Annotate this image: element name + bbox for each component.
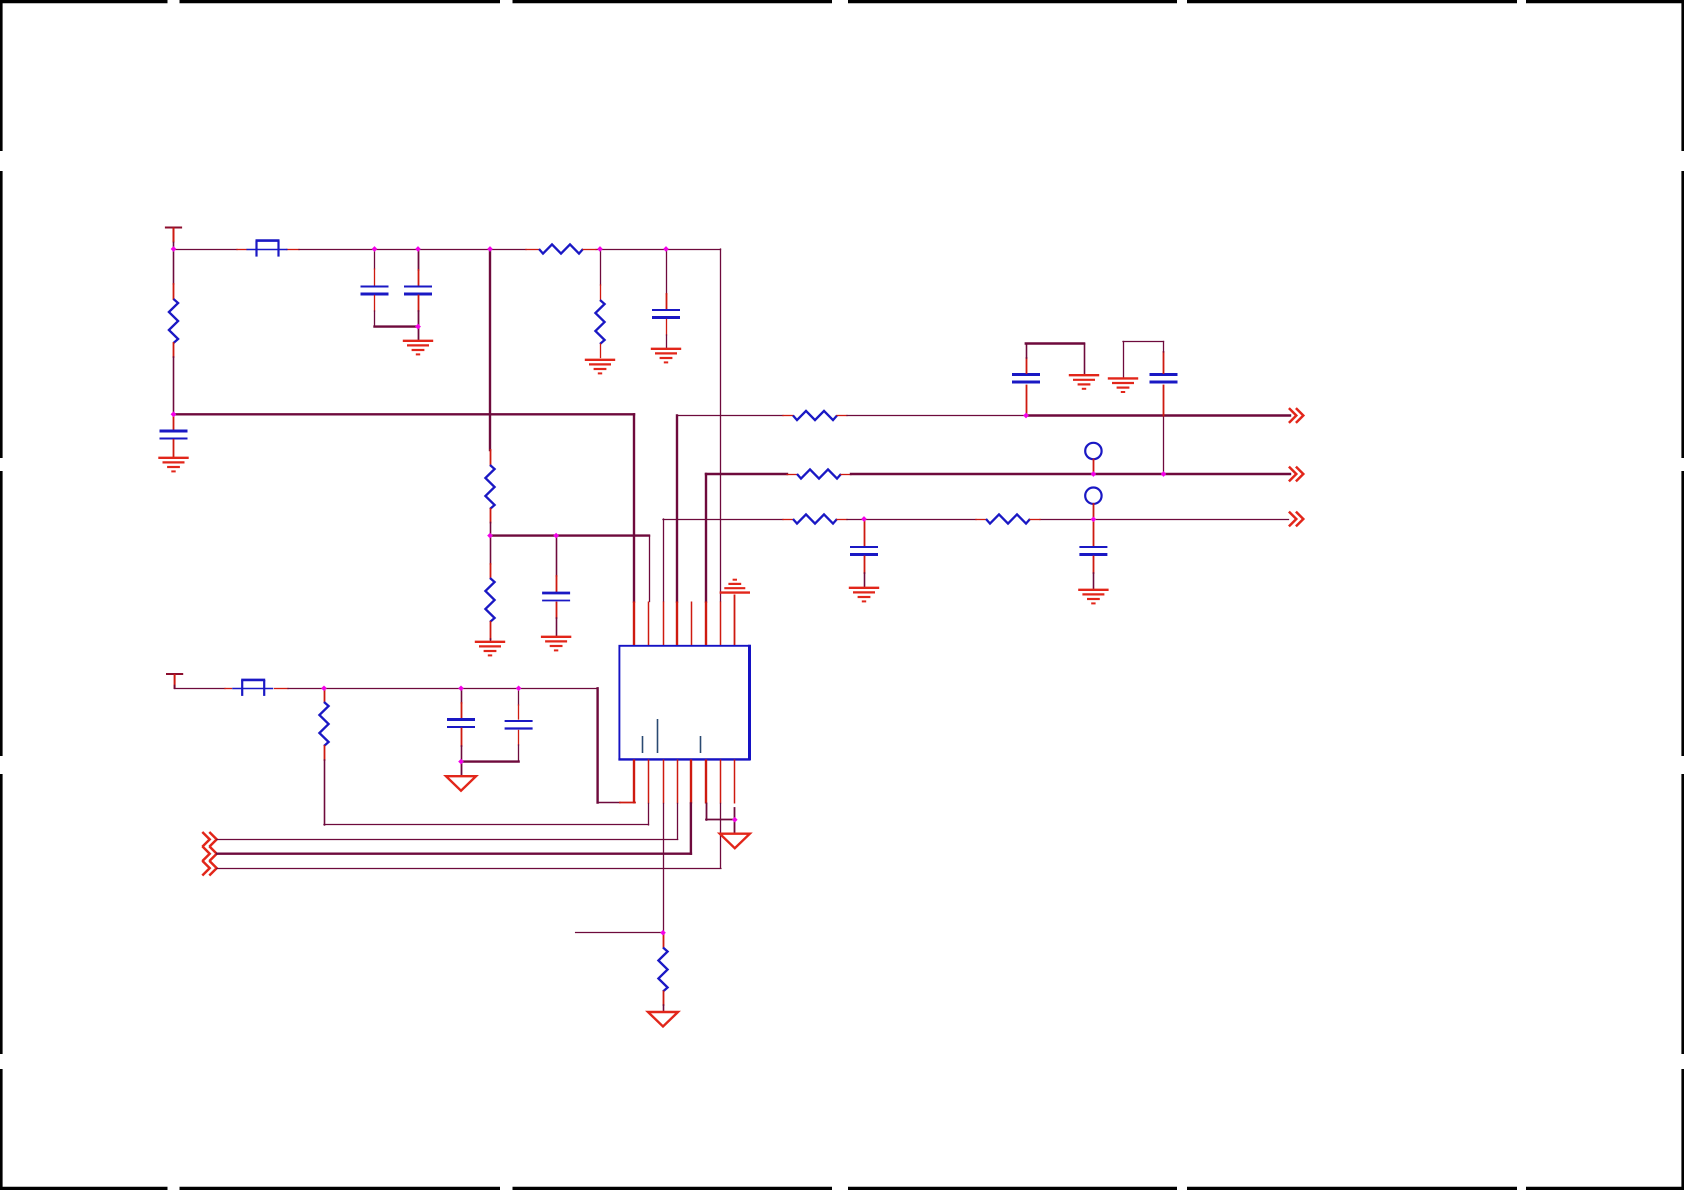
wire U1 pin8 to triangle ground: [734, 808, 736, 833]
ground G9: [1069, 375, 1099, 389]
wire vertical x=706 down to U1 pin5: [705, 474, 707, 602]
capacitor C4 at (666,310): [666, 249, 668, 294]
capacitor C5 at (556,593): [556, 536, 558, 576]
wire net A y=414 (173 to 634): [174, 413, 635, 415]
off-page connector net C: [1289, 512, 1303, 527]
resistor R8 on net E: [797, 469, 841, 478]
triangle ground T1: [446, 776, 476, 791]
ground G10: [1108, 378, 1138, 392]
U1 pin8 stub to flipped ground: [734, 595, 736, 646]
capacitor C11 at (518,721): [518, 688, 520, 705]
ground G7: [849, 588, 879, 602]
resistor R7 on net D: [793, 411, 837, 420]
wire VCC1 rail y=249: [174, 249, 238, 251]
off-page connector net D: [1289, 408, 1303, 423]
resistor R6 on net C: [976, 519, 986, 521]
resistor R9 at (324,704): [324, 688, 326, 690]
wire y=802.6 to U1 pin1 bottom: [598, 802, 620, 804]
triangle ground T3: [648, 1012, 678, 1027]
ground G8: [1078, 590, 1108, 604]
node junction (173,414): [171, 411, 177, 417]
wire C2-C3 bottom join y=326.6: [375, 325, 419, 327]
U1 inner pin-name marks: [643, 719, 701, 753]
resistor R3 at (600,300) to ground: [600, 249, 602, 285]
U1 top pin stubs: [633, 602, 635, 646]
capacitor C2 at (374,286): [374, 249, 376, 269]
wire stub y=932.7: [576, 932, 663, 934]
junction dots: [171, 246, 177, 252]
capacitor C3 at (418,286): [418, 249, 420, 270]
capacitor C6 at (864,547): [864, 519, 866, 546]
wire net C (output 3) y=519: [663, 519, 783, 521]
test point circle TP1: [1085, 443, 1101, 459]
flipped ground G11 above U1 pin8: [720, 580, 750, 593]
sheet border bottom: [0, 1187, 1684, 1190]
wire net E (output 2) y=474: [706, 473, 787, 475]
resistor R2 at (490,465): [490, 450, 492, 465]
ground G6: [541, 637, 571, 651]
node junction (418,326.6): [415, 324, 421, 330]
fuse F1: [247, 241, 288, 257]
resistor R10 at (663,947): [663, 933, 665, 934]
sheet border left: [0, 0, 3, 1190]
wire U1 pin3 long vertical to x=663,933: [663, 804, 665, 933]
off-page connector bus wire 2 y=853.7: [202, 846, 216, 861]
wire vertical x=720.5 from rail to U1 pin6: [720, 249, 722, 602]
wire U1 pin6 to ground net: [706, 804, 708, 820]
IC U1 body: [619, 646, 749, 760]
wire C10-C11 join y=761.6: [461, 760, 519, 762]
ground G4: [651, 349, 681, 363]
power flag VCC2: [166, 673, 183, 675]
resistor R1 vertical at x=173: [173, 249, 175, 284]
resistor R4 at (490,578) to ground: [490, 536, 492, 564]
wire y=824.9 to U1 pin2 bottom: [324, 824, 649, 826]
wire vertical x=634 down to U1 pin1: [633, 414, 635, 601]
resistor R11 on VCC1 rail: [526, 249, 539, 251]
wire net B y=535.6: [490, 534, 649, 536]
wire vertical x=663 down to U1 pin3: [663, 519, 665, 602]
off-page connector net E: [1289, 467, 1303, 482]
wire net D (output 1) y=415.5: [677, 415, 783, 417]
capacitor C10 at (461,719): [461, 688, 463, 703]
off-page connector bus wire 3 y=868.1: [202, 861, 216, 876]
test point circle TP2: [1085, 488, 1101, 504]
capacitor C8 at (1026,374) with ground loop: [1026, 386, 1028, 416]
ground G5: [475, 642, 505, 656]
ground G3: [585, 360, 615, 374]
fuse F2: [232, 680, 273, 696]
triangle ground T2: [720, 834, 750, 849]
power flag VCC1: [165, 227, 182, 229]
ground G1: [158, 458, 188, 472]
wire vertical x=490 (249 to 535): [489, 249, 491, 450]
capacitor C9 at (1163,374) with ground loop: [1163, 416, 1165, 474]
resistor R5 on net C: [793, 514, 837, 523]
ground G2: [403, 341, 433, 355]
capacitor C7 at (1093,547): [1093, 519, 1095, 546]
capacitor C1 at (173,431): [173, 414, 175, 429]
sheet border right: [1681, 0, 1684, 1190]
wire vertical x=649 down to U1 pin2: [649, 536, 651, 602]
wire VCC2 rail y=688.3: [175, 688, 225, 690]
wire vertical x=597.6 down: [596, 688, 598, 802]
sheet border top: [0, 0, 1684, 3]
off-page connector bus wire 1 y=839.4: [202, 832, 216, 847]
U1 bottom pin stubs: [633, 760, 635, 804]
wire vertical x=677 down to U1 pin4: [676, 416, 678, 602]
